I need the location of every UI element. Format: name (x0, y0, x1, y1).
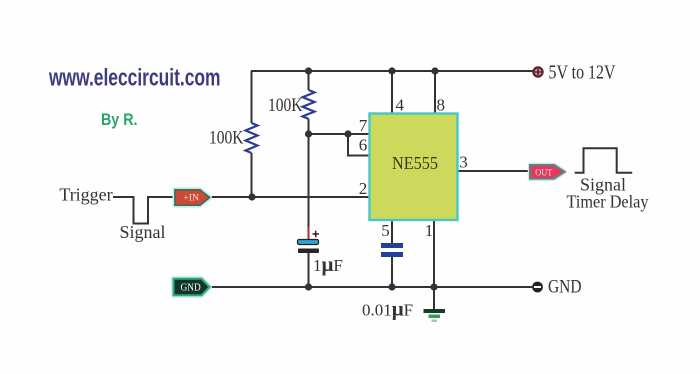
svg-text:+IN: +IN (183, 194, 199, 204)
svg-text:4: 4 (396, 96, 405, 115)
svg-text:2: 2 (359, 179, 368, 198)
svg-text:Signal: Signal (119, 222, 165, 242)
svg-text:Trigger: Trigger (59, 185, 112, 205)
svg-text:7: 7 (359, 116, 368, 135)
svg-text:Timer Delay: Timer Delay (567, 192, 649, 212)
svg-text:GND: GND (181, 283, 201, 294)
svg-text:5V to 12V: 5V to 12V (549, 63, 616, 84)
svg-text:100K: 100K (268, 95, 303, 116)
svg-text:3: 3 (459, 153, 468, 172)
svg-text:1μF: 1μF (313, 252, 343, 276)
svg-text:0.01μF: 0.01μF (362, 297, 413, 321)
svg-text:NE555: NE555 (392, 153, 438, 173)
svg-text:1: 1 (425, 221, 434, 240)
svg-text:100K: 100K (209, 128, 244, 149)
svg-text:6: 6 (359, 136, 368, 155)
svg-text:8: 8 (437, 96, 446, 115)
svg-text:5: 5 (381, 221, 390, 240)
svg-text:www.eleccircuit.com: www.eleccircuit.com (48, 65, 220, 92)
svg-text:GND: GND (548, 278, 582, 298)
svg-text:OUT: OUT (535, 168, 552, 178)
svg-text:By R.: By R. (101, 110, 138, 129)
